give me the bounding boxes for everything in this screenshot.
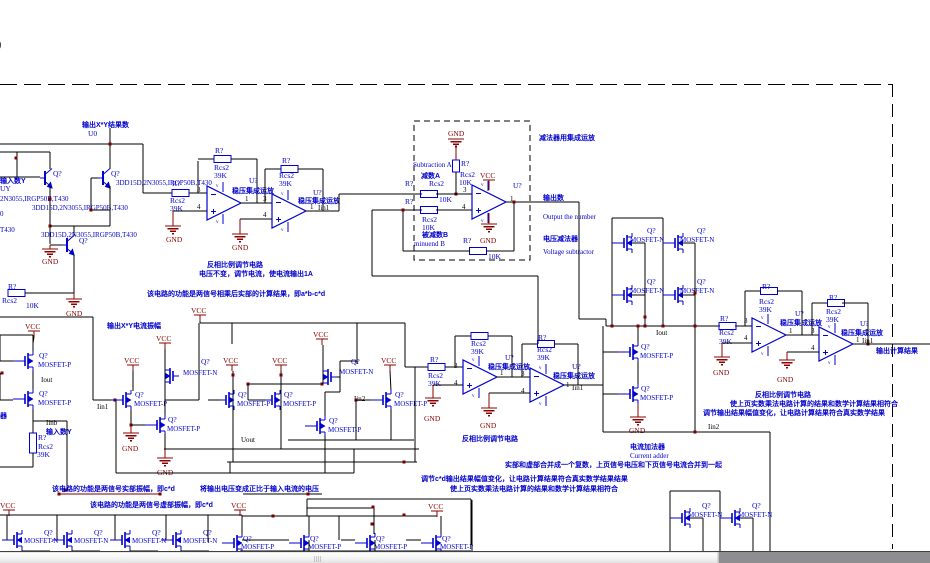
wire bottom rail left [0, 514, 242, 516]
junction maroon a [58, 493, 61, 496]
svg-text:R?: R? [405, 179, 414, 188]
svg-text:GND: GND [629, 426, 646, 435]
wire C plus input [433, 384, 463, 386]
MOSFET P stack 2 [618, 393, 630, 395]
svg-text:VCC: VCC [381, 356, 396, 365]
junction maroon b [159, 493, 162, 496]
wire D plus input [489, 392, 530, 394]
svg-text:Current adder: Current adder [630, 452, 669, 460]
svg-text:U0: U0 [88, 129, 97, 138]
svg-text:Q?: Q? [39, 389, 48, 398]
junction drain rail 2 [694, 292, 697, 295]
wire q3 tap [632, 294, 645, 296]
wire F3 source down [130, 410, 132, 425]
svg-text:Q?: Q? [329, 416, 338, 425]
op-amp A output stage [752, 318, 786, 352]
svg-text:R?: R? [38, 433, 47, 442]
svg-text:R?: R? [282, 156, 291, 165]
svg-text:10K: 10K [26, 301, 40, 310]
svg-text:Q?: Q? [111, 169, 120, 178]
svg-text:Q?: Q? [168, 415, 177, 424]
resistor R feedback U1 [214, 156, 231, 163]
wire quad gate rail 2 [662, 218, 664, 326]
ground stem F [73, 293, 75, 299]
svg-text:输出数: 输出数 [543, 193, 565, 202]
svg-text:Q?: Q? [697, 226, 706, 235]
wire right drop [414, 367, 416, 440]
ground stem U1 [172, 211, 174, 226]
wire left rail stack [602, 326, 604, 432]
resistor feedback 10K box [470, 248, 487, 255]
wire bus 449 [164, 448, 419, 450]
wire fbA left [744, 291, 746, 326]
wire Q2 emitter down [109, 186, 111, 226]
wire fbD down [577, 344, 579, 385]
svg-text:1: 1 [245, 195, 249, 203]
wire output to rail [579, 318, 606, 320]
wire BN2 source link [740, 517, 753, 519]
wire lower mid [243, 493, 322, 495]
wire F10 gate down [355, 400, 357, 440]
resistor R feedback D [538, 341, 555, 348]
wire vcc rail drop [404, 323, 406, 367]
svg-text:39K: 39K [826, 315, 840, 324]
svg-text:Voltage subtractor: Voltage subtractor [543, 248, 595, 256]
svg-text:GND: GND [166, 235, 183, 244]
svg-text:Iinb: Iinb [46, 419, 58, 427]
wire BN2 source down [752, 518, 754, 551]
svg-text:Q?: Q? [243, 534, 252, 543]
resistor R feedback B [828, 300, 845, 307]
svg-text:U?: U? [795, 309, 804, 318]
op-amp D [530, 368, 564, 402]
wire U0 net down / Q2 collector [109, 128, 111, 169]
svg-text:调节c*d输出结果幅值变化，让电路计算结果符合真实数学结果结: 调节c*d输出结果幅值变化，让电路计算结果符合真实数学结果结果 [421, 474, 628, 483]
scrollbar separator [0, 551, 930, 553]
wire fbC left [454, 336, 456, 367]
svg-text:Q?: Q? [238, 390, 247, 399]
svg-text:稳压集成运放: 稳压集成运放 [553, 371, 596, 380]
wire source N4 [180, 550, 182, 554]
wire loop left down [371, 210, 373, 276]
ground op-amp box [481, 223, 497, 225]
svg-text:电流加法器: 电流加法器 [630, 442, 666, 451]
wire F1 frame top [0, 334, 33, 336]
wire link N3 [130, 550, 158, 552]
ground stem A [721, 343, 723, 357]
svg-text:Q?: Q? [752, 501, 761, 510]
wire drop N3 [114, 515, 116, 540]
svg-text:4: 4 [263, 211, 267, 219]
wire to RfbB [812, 302, 828, 304]
MOSFET BN1 [670, 517, 682, 519]
ground stem C [432, 385, 434, 398]
MOSFET F2 [13, 398, 25, 400]
MOSFET Q3 quad [612, 294, 624, 296]
svg-text:MOSFET-P: MOSFET-P [241, 543, 274, 551]
svg-text:0: 0 [0, 210, 4, 218]
svg-text:MOSFET-P: MOSFET-P [167, 425, 200, 433]
ground mid left [66, 298, 82, 300]
wire into Rcs2 [143, 192, 172, 194]
wire BN1 source down [702, 518, 704, 551]
wire to F9 drain [324, 392, 326, 416]
svg-text:反相比例调节电路: 反相比例调节电路 [462, 434, 519, 443]
MOSFET bottom P1 [222, 542, 234, 544]
wire drop N1 [6, 515, 8, 540]
svg-text:3: 3 [197, 186, 201, 194]
wire maroon lower [59, 493, 160, 495]
wire fbB down [867, 303, 869, 344]
wire U1 plus input [173, 210, 207, 212]
vcc stem bl [8, 510, 10, 515]
wire A plus input [722, 342, 752, 344]
wire Q3 collector [73, 226, 75, 236]
svg-text:R?: R? [405, 197, 414, 206]
svg-text:Q?: Q? [697, 277, 706, 286]
svg-text:1: 1 [310, 203, 314, 211]
wire cross link down [247, 384, 249, 400]
wire A out to B in [786, 334, 819, 336]
wire vcc to F3 [132, 371, 134, 391]
wire src P2 [308, 540, 310, 553]
resistor R feedback U2 [281, 166, 298, 173]
ground F5 [157, 457, 173, 459]
resistor R feedback A [761, 288, 778, 295]
wire F2 source down [32, 409, 34, 421]
resistor R input C [428, 364, 445, 371]
junction bus 462 [403, 461, 406, 464]
wire V4 drop [198, 323, 200, 400]
wire quad drain rail 1 [644, 243, 646, 326]
svg-text:Q?: Q? [53, 169, 62, 178]
wire Q1 base [0, 176, 40, 178]
ground stem box top [455, 145, 457, 160]
svg-text:Rcs2: Rcs2 [429, 179, 444, 188]
svg-text:MOSFET-P: MOSFET-P [308, 543, 341, 551]
svg-text:GND: GND [448, 129, 465, 138]
wire Q1 emitter chain [49, 186, 51, 244]
wire F6 rail [232, 371, 234, 462]
wire box left [669, 491, 671, 551]
svg-text:VCC: VCC [231, 501, 246, 510]
wire fb1 down to output [256, 159, 258, 203]
resistor Rcs2 input U1 [172, 190, 189, 197]
wire F10 source down [390, 409, 392, 440]
wire emitter rail [50, 225, 110, 227]
wire B plus input [787, 351, 819, 353]
junction rail c [662, 325, 665, 328]
ground op-amp B [779, 359, 795, 361]
wire F8 rail [322, 345, 324, 384]
svg-text:Output the number: Output the number [543, 213, 597, 221]
wire box mid [719, 491, 721, 551]
svg-text:1: 1 [856, 336, 860, 344]
svg-text:该电路的功能是两信号相乘后实部的计算结果，即a*b-c*d: 该电路的功能是两信号相乘后实部的计算结果，即a*b-c*d [147, 289, 325, 298]
wire bus 462 [227, 461, 417, 463]
wire input A to op-amp [436, 193, 472, 195]
svg-text:39K: 39K [170, 204, 184, 213]
wire U2 plus input [240, 218, 272, 220]
junction F10 gate [355, 399, 358, 402]
MOSFET F8 [323, 370, 328, 372]
wire F6 gate stub [208, 399, 220, 401]
wire to Rv F [32, 421, 34, 433]
svg-text:Q?: Q? [442, 534, 451, 543]
wire drain P4 [440, 516, 442, 534]
svg-text:Iin1: Iin1 [97, 403, 109, 411]
MOSFET BN2 [720, 517, 732, 519]
svg-text:GND: GND [42, 257, 59, 266]
ground stem B [786, 352, 788, 360]
svg-text:Q?: Q? [94, 528, 103, 537]
wire subtractor output down [578, 202, 580, 319]
svg-text:稳压集成运放: 稳压集成运放 [841, 328, 884, 337]
svg-text:U?: U? [313, 188, 322, 197]
wire down to N box [769, 432, 771, 551]
wire collector rail Q1 [0, 151, 50, 153]
svg-text:Uout: Uout [241, 436, 255, 444]
wire mid drop [471, 500, 473, 551]
ground stem U2 [239, 219, 241, 234]
wire rail drop a [231, 323, 233, 344]
wire F1 frame left [0, 335, 1, 361]
wire link N4 [181, 550, 209, 552]
op-amp U2 subtractor [472, 185, 506, 219]
svg-text:Q?: Q? [44, 528, 53, 537]
wire R to gnd rail [25, 292, 74, 294]
junction emitter rail [49, 225, 52, 228]
svg-text:2N3055,IRGP50B,T430: 2N3055,IRGP50B,T430 [0, 195, 69, 203]
junction input A [455, 193, 458, 196]
svg-text:4: 4 [744, 334, 748, 342]
wire final output [853, 343, 930, 345]
wire F4 rail [164, 349, 166, 416]
junction vcc F6 [232, 374, 235, 377]
svg-text:GND: GND [480, 236, 497, 245]
wire quad top link [612, 217, 663, 219]
ground stem F3 [130, 425, 132, 433]
svg-text:Q?: Q? [284, 390, 293, 399]
svg-text:39K: 39K [214, 171, 228, 180]
wire to RfbC [455, 335, 471, 337]
svg-text:调节输出结果幅值变化，让电路计算结果符合真实数学结果: 调节输出结果幅值变化，让电路计算结果符合真实数学结果 [703, 408, 885, 417]
wire U2 feedback left [264, 169, 266, 203]
svg-text:39K: 39K [719, 337, 733, 346]
wire quad gate rail 1 [611, 218, 613, 326]
svg-text:该电路的功能是两信号虚部振幅，即c*d: 该电路的功能是两信号虚部振幅，即c*d [90, 500, 213, 509]
junction B out [867, 343, 870, 346]
svg-text:使上页实数乘法电路计算的结果和数学计算结果相符合: 使上页实数乘法电路计算的结果和数学计算结果相符合 [449, 484, 619, 493]
svg-text:10K: 10K [422, 223, 436, 232]
svg-text:MOSFET-P: MOSFET-P [38, 399, 71, 407]
svg-text:R?: R? [762, 282, 771, 291]
wire F2 gate feed [0, 399, 13, 401]
svg-text:MOSFET-P: MOSFET-P [440, 543, 473, 551]
wire fbD left [521, 344, 523, 377]
svg-text:稳压集成运放: 稳压集成运放 [780, 318, 823, 327]
wire Iinb down [66, 421, 68, 490]
wire fb box down [513, 202, 515, 251]
svg-text:U?: U? [505, 353, 514, 362]
op-amp C [463, 360, 497, 394]
wire to F3 gate [93, 399, 111, 401]
svg-text:U?: U? [572, 362, 581, 371]
junction drain rail 1 [644, 316, 647, 319]
svg-text:Rcs2: Rcs2 [2, 296, 17, 305]
wire U1 feedback left [197, 161, 199, 193]
svg-text:Q?: Q? [647, 277, 656, 286]
svg-text:GND: GND [777, 375, 794, 384]
wire to F7 gate [248, 399, 260, 401]
wire fb2 down [322, 169, 324, 211]
wire to R fb1 [198, 158, 214, 160]
svg-text:VCC: VCC [428, 502, 443, 511]
wire U2 output [306, 210, 339, 212]
MOSFET bottom N1 [2, 539, 14, 541]
wire q1 tap [632, 242, 645, 244]
ground under Q3 base [42, 248, 58, 250]
svg-text:将输出电压变成正比于输入电流的电压: 将输出电压变成正比于输入电流的电压 [200, 484, 319, 493]
svg-text:4: 4 [521, 387, 525, 395]
svg-text:39K: 39K [279, 179, 293, 188]
wire to R fb2 [265, 168, 281, 170]
svg-text:MOSFET-N: MOSFET-N [680, 287, 714, 295]
junction band mid [372, 506, 375, 509]
MOSFET bottom P3 [355, 542, 367, 544]
svg-text:R?: R? [720, 314, 729, 323]
wire band bottom rail [240, 550, 471, 552]
wire link P3P4 [406, 539, 421, 541]
svg-text:实部和虚部合并成一个复数，上页信号电压和下页信号电流合并到一: 实部和虚部合并成一个复数，上页信号电压和下页信号电流合并到一起 [505, 460, 723, 469]
wire RC to opamp C [445, 366, 463, 368]
wire vcc to F10 [390, 371, 391, 391]
wire band top long [307, 498, 471, 500]
ground F3 [123, 432, 139, 434]
svg-text:): ) [0, 36, 1, 51]
svg-text:GND: GND [232, 243, 249, 252]
resistor R0 current [719, 323, 736, 330]
svg-text:被减数B: 被减数B [422, 230, 448, 239]
wire to RfbD [522, 343, 538, 345]
svg-text:VCC: VCC [0, 501, 15, 510]
wire fbA down [801, 291, 803, 335]
svg-text:输出计算结果: 输出计算结果 [876, 346, 918, 355]
resistor R vertical 10K [453, 160, 460, 172]
svg-text:Q?: Q? [79, 236, 88, 245]
MOSFET Q2 quad [663, 242, 675, 244]
scrollbar track [0, 552, 930, 563]
MOSFET F3 Iin1 [111, 399, 123, 401]
svg-text:39K: 39K [471, 347, 485, 356]
svg-text:3DD15D,2N3055,IRGP50B,T430: 3DD15D,2N3055,IRGP50B,T430 [41, 231, 137, 239]
svg-text:器: 器 [0, 411, 8, 420]
wire R to U1 minus [189, 192, 207, 194]
svg-text:减法器用集成运放: 减法器用集成运放 [539, 133, 596, 142]
junction F3-F5 [130, 424, 133, 427]
wire stack drain [637, 326, 639, 343]
ground stem stack [637, 404, 639, 417]
svg-text:反相比例调节电路: 反相比例调节电路 [755, 390, 812, 399]
wire Q2 base drop [90, 178, 92, 210]
svg-text:输出X*Y电流振幅: 输出X*Y电流振幅 [107, 321, 161, 330]
junction emitter net [49, 198, 52, 201]
wire input B [372, 209, 422, 211]
dashed box voltage subtractor [414, 121, 530, 260]
svg-text:Iout: Iout [656, 329, 667, 337]
wire U1 out to U2 in [241, 202, 272, 204]
wire Q2 base [91, 177, 98, 179]
MOSFET bottom P2 [289, 542, 301, 544]
sheet border dashed top [0, 84, 892, 86]
wire loop down right [537, 276, 539, 344]
wire Iin1 feed [0, 316, 93, 318]
ground stem F5 [164, 449, 166, 458]
junction input B [402, 209, 405, 212]
wire Q3 emitter down [73, 255, 75, 293]
wire fbC right [488, 335, 512, 337]
MOSFET bottom N3 [110, 539, 122, 541]
scrollbar thumb right edge [717, 552, 719, 563]
wire BN1 source link [690, 517, 703, 519]
wire D output [564, 384, 603, 386]
wire fbC down [511, 336, 513, 377]
ground top of box [448, 138, 464, 140]
ground stem D [488, 393, 490, 408]
svg-text:VCC: VCC [191, 306, 206, 315]
wire fb box lower left [403, 250, 470, 252]
svg-text:使上页实数乘法电路计算的结果和数学计算结果相符合: 使上页实数乘法电路计算的结果和数学计算结果相符合 [729, 399, 899, 408]
svg-text:MOSFET-P: MOSFET-P [237, 400, 270, 408]
wire fbB left [811, 303, 813, 335]
wire link N1 [22, 550, 50, 552]
svg-text:GND: GND [122, 444, 139, 453]
svg-text:minuend B: minuend B [414, 240, 445, 248]
ground U1 plus [165, 225, 181, 227]
wire rail drop b [356, 323, 358, 364]
svg-text:MOSFET-N: MOSFET-N [183, 369, 217, 377]
resistor Rcs2 39K vertical F [30, 433, 37, 453]
wire F7 rail [280, 371, 282, 449]
junction left edge [1, 372, 4, 375]
wire base link [91, 209, 110, 211]
wire drop N2 [56, 515, 58, 540]
svg-text:3: 3 [463, 186, 467, 194]
wire bus link right [353, 449, 355, 473]
sheet border dashed right [892, 84, 894, 549]
svg-text:U?: U? [513, 181, 522, 190]
svg-text:1: 1 [500, 369, 504, 377]
MOSFET Q1 quad [612, 242, 624, 244]
junction band drop [371, 523, 374, 526]
junction lower mid [307, 493, 310, 496]
MOSFET F7 [260, 399, 272, 401]
svg-text:R?: R? [538, 333, 547, 342]
junction Iin2 rail [694, 431, 697, 434]
svg-text:GND: GND [480, 421, 497, 430]
MOSFET bottom N2 [52, 539, 64, 541]
wire bus 440 [288, 439, 414, 441]
svg-text:Q?: Q? [201, 357, 210, 366]
svg-text:电压减法器: 电压减法器 [543, 234, 579, 243]
wire link P2P3 [341, 539, 355, 541]
wire up to subtractor [338, 194, 340, 211]
svg-text:反相比例调节电路: 反相比例调节电路 [207, 260, 264, 269]
wire fbB right [842, 302, 868, 304]
MOSFET F10 Iin2 [371, 399, 383, 401]
wire drain P1 [241, 515, 243, 534]
wire output jog [605, 319, 607, 326]
